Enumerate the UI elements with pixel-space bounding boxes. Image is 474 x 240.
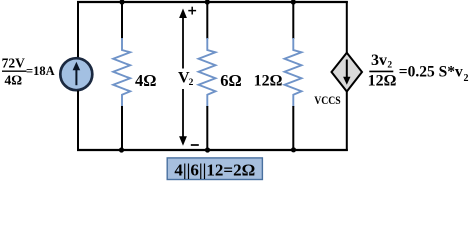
current source I1 [60,58,92,90]
dependent source VCCS diamond [332,53,363,92]
svg-text:VCCS: VCCS [314,93,341,107]
wire 6ohm top lead [206,1,208,39]
svg-text:2: 2 [387,61,392,71]
svg-text:3v: 3v [371,52,387,69]
label VCCS value 3v2/12ohm = 0.25 S*v2 [368,52,469,90]
voltage arrow V2 up [179,7,196,69]
svg-text:12Ω: 12Ω [368,73,397,90]
wire 12ohm bottom lead [292,106,294,151]
equivalent resistance callout box 4||6||12=2ohm [167,158,262,180]
svg-text:4||6||12=2Ω: 4||6||12=2Ω [174,160,255,179]
svg-text:4Ω: 4Ω [135,71,156,90]
svg-text:2: 2 [189,78,194,88]
wire 12ohm top lead [292,1,294,39]
node dot 12ohm top [291,0,296,5]
node dot 6ohm bottom [205,147,210,152]
voltage arrow V2 down [179,89,199,146]
resistor R2 6ohm [199,38,216,107]
svg-text:4Ω: 4Ω [5,72,23,87]
wire right branch lower [346,90,348,151]
wire 6ohm bottom lead [206,106,208,151]
wire 4ohm top lead [121,1,123,39]
node dot 12ohm bottom [291,147,296,152]
wire top bus [77,1,348,3]
label V2 [178,70,194,89]
svg-text:72V: 72V [2,55,26,70]
wire right branch upper [346,1,348,54]
svg-text:12Ω: 12Ω [254,73,283,90]
wire left branch lower [77,91,79,152]
node dot 4ohm top [119,0,124,5]
wire left branch upper [77,1,79,59]
wire bottom bus [77,149,348,151]
svg-text:2: 2 [464,73,469,84]
svg-text:6Ω: 6Ω [220,71,241,90]
resistor R1 4ohm [113,38,130,107]
resistor R3 12ohm [285,38,302,107]
wire 4ohm bottom lead [121,106,123,151]
svg-text:=0.25 S*v: =0.25 S*v [399,64,463,81]
node dot 4ohm bottom [119,147,124,152]
node dot 6ohm top [205,0,210,5]
svg-text:=18A: =18A [26,64,55,78]
label I1 value 72V/4ohm = 18A [2,55,55,87]
